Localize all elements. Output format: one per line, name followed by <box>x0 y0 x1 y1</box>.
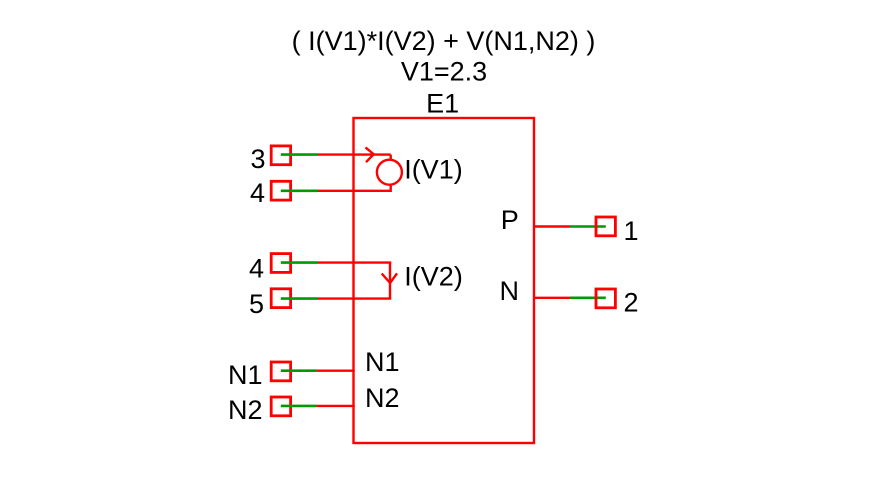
current arrow I(V1) <box>366 147 374 162</box>
svg-text:V1=2.3: V1=2.3 <box>401 56 487 86</box>
svg-text:( I(V1)*I(V2) + V(N1,N2) ): ( I(V1)*I(V2) + V(N1,N2) ) <box>292 26 596 56</box>
svg-text:1: 1 <box>624 216 639 246</box>
pin 2 terminal square <box>596 289 615 308</box>
wire pin5 red into box <box>318 297 391 299</box>
svg-text:2: 2 <box>624 287 639 317</box>
pin 3 terminal square <box>271 146 290 165</box>
wire pin5 green <box>281 297 318 300</box>
pin 5 terminal square <box>271 289 290 308</box>
svg-text:4: 4 <box>249 253 264 283</box>
svg-text:3: 3 <box>250 144 265 174</box>
svg-text:N1: N1 <box>228 360 263 390</box>
wire pin4b red into box <box>318 261 391 263</box>
pin N1 terminal square <box>271 362 290 381</box>
wire pin4 green <box>281 190 318 193</box>
wire pin3 green <box>281 153 318 156</box>
wire pinN1 red <box>317 370 355 372</box>
svg-text:4: 4 <box>250 178 265 208</box>
pin N2 terminal square <box>271 397 290 416</box>
wire pin3 red into box <box>318 153 391 155</box>
svg-text:I(V2): I(V2) <box>404 261 463 291</box>
svg-text:I(V1): I(V1) <box>404 154 463 184</box>
wire pin2 red <box>533 297 570 299</box>
wire pinN1 green <box>281 369 317 372</box>
op-amp body E1 (behavioral source box) <box>354 118 535 443</box>
wire pin4 red into box <box>318 190 392 192</box>
svg-text:E1: E1 <box>426 88 459 118</box>
svg-text:N2: N2 <box>228 395 263 425</box>
wire pin2 green <box>570 296 606 299</box>
pin 4 terminal square <box>271 181 290 200</box>
wire pinN2 red <box>317 405 355 407</box>
svg-text:N: N <box>500 276 520 306</box>
wire pin4b green <box>281 261 318 264</box>
svg-text:P: P <box>501 205 519 235</box>
wire pinN2 green <box>281 405 317 408</box>
wire pin1 red <box>533 225 570 227</box>
wire vertical I(V2) <box>389 263 391 299</box>
pin 4b terminal square <box>271 254 290 273</box>
wire vertical through sensor circle <box>390 155 392 190</box>
svg-text:5: 5 <box>249 289 264 319</box>
pin 1 terminal square <box>596 217 615 236</box>
wire pin1 green <box>570 225 606 228</box>
svg-text:N1: N1 <box>365 347 400 377</box>
current sensor circle <box>377 160 402 185</box>
current arrow I(V2) <box>382 273 397 283</box>
svg-text:N2: N2 <box>365 383 400 413</box>
